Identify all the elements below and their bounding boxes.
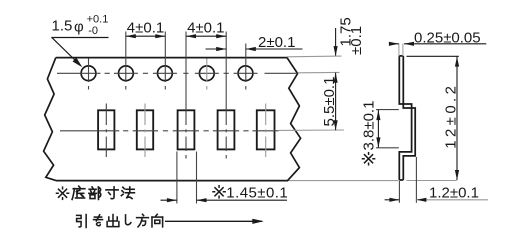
- svg-text:1.45±0.1: 1.45±0.1: [226, 184, 288, 201]
- extension line pocket outer wall (for 1.2 dim): [415, 157, 417, 203]
- extension lines for 0.25 thickness: [398, 44, 400, 57]
- svg-text:12±0.2: 12±0.2: [442, 83, 459, 149]
- svg-text:3.8±0.1: 3.8±0.1: [361, 101, 378, 151]
- wire section top edge extension (for 12 dim): [407, 55, 459, 57]
- wire left break (zigzag) edge: [44, 58, 56, 181]
- svg-text:5.5±0.1: 5.5±0.1: [321, 77, 338, 127]
- note 引き出し方向 (pull-out direction): [77, 215, 87, 228]
- dimension 12±0.2 tape width: [456, 57, 458, 181]
- dimension ※3.8±0.1 pocket inner length: [377, 110, 379, 147]
- dimension line 5.5±0.1 hole CL to pocket CL: [335, 73, 337, 131]
- node hole 3 vertical centerline / extension of 4-dim: [164, 32, 166, 83]
- wire tape bottom edge: [56, 180, 288, 182]
- svg-text:1.2±0.1: 1.2±0.1: [429, 184, 479, 201]
- dimension 0.25±0.05 tape thickness: [389, 43, 399, 45]
- node pocket 5 vertical centerline: [265, 104, 267, 126]
- extension lines pocket bottom width: [176, 152, 178, 204]
- wire tape top edge: [56, 57, 287, 59]
- sprocket hole 4: [199, 66, 214, 81]
- node pocket 4 vertical centerline / extension of 4-dim and 2-dim: [225, 32, 227, 126]
- sprocket hole 5: [238, 66, 253, 81]
- svg-text:±0.1: ±0.1: [348, 26, 365, 55]
- svg-text:-0: -0: [88, 25, 98, 37]
- node pocket 3 vertical centerline / extension of 4-dim: [185, 32, 187, 126]
- svg-text:4±0.1: 4±0.1: [187, 19, 224, 36]
- wire tape bottom edge extension to section: [288, 180, 398, 182]
- node hole 1 vertical centerline: [88, 59, 90, 83]
- wire tape top edge extension (right, for 1.75 dim): [287, 55, 342, 58]
- wire pocket centerline extension (right, for 5.5 dim): [279, 129, 344, 131]
- wire hole centerline extension (right, for 1.75/5.5 dims): [298, 71, 340, 73]
- svg-text:0.25±0.05: 0.25±0.05: [414, 29, 481, 46]
- section end caps: [399, 55, 403, 57]
- component pocket 1: [98, 110, 114, 149]
- dimension ※1.45±0.1 pocket bottom width: [161, 199, 177, 201]
- sprocket hole 1: [81, 66, 96, 81]
- component pocket 2: [137, 110, 153, 149]
- svg-text:4±0.1: 4±0.1: [127, 19, 164, 36]
- node pocket 1 vertical centerline: [105, 104, 107, 126]
- svg-text:φ: φ: [74, 19, 84, 36]
- wire leader line to hole 1: [51, 37, 108, 39]
- svg-text:2±0.1: 2±0.1: [258, 34, 295, 51]
- dimension 1.2±0.1 pocket depth: [385, 199, 400, 201]
- svg-text:1.5: 1.5: [52, 18, 73, 35]
- note ※底部寸法 (bottom dimensions): [56, 187, 68, 199]
- wire tape bottom edge extension right of section: [407, 180, 457, 182]
- node hole 4 vertical centerline: [206, 59, 208, 83]
- extension lines for 3.8 pocket length: [376, 109, 399, 111]
- node hole 5 vertical centerline / extension of 2-dim: [245, 44, 247, 83]
- node hole 2 vertical centerline / extension of 4-dim: [125, 32, 127, 83]
- component pocket 4: [218, 110, 235, 149]
- sprocket hole 3: [158, 66, 173, 81]
- component pocket 3: [178, 110, 195, 149]
- node hole-row centerline: [57, 72, 101, 74]
- node pocket 2 vertical centerline: [144, 104, 146, 126]
- dimension line 1.75±0.1 tape edge to hole centerline: [335, 28, 337, 56]
- wire right break (zigzag) edge: [287, 58, 301, 181]
- sprocket hole 2: [119, 66, 134, 81]
- dimension 4±0.1 pocket pitch (pockets 3-4): [186, 35, 226, 37]
- wire pull-out direction arrow: [165, 220, 262, 222]
- component pocket 5: [257, 110, 275, 149]
- svg-text:+0.1: +0.1: [87, 13, 109, 25]
- tape cross-section profile (front surface): [399, 56, 411, 180]
- extension line tape front surface (for 1.2 dim): [398, 181, 400, 203]
- dimension 2±0.1 pocket-to-hole offset: [206, 48, 227, 50]
- node pocket-row centerline: [60, 130, 119, 132]
- dimension 4±0.1 hole pitch (holes 2-3): [126, 35, 166, 37]
- tape cross-section profile (back surface): [403, 56, 415, 180]
